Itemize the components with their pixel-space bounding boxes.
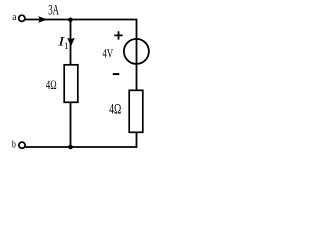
wire left branch upper (top junction to resistor) <box>70 20 72 66</box>
junction bottom node <box>68 145 73 150</box>
svg-text:4V: 4V <box>103 46 114 61</box>
svg-text:4Ω: 4Ω <box>109 102 121 118</box>
wire bottom (b to bottom-right corner) <box>26 146 138 148</box>
svg-text:1: 1 <box>64 41 69 51</box>
polarity plus mark <box>114 31 122 39</box>
node a terminal circle <box>19 15 25 21</box>
current arrow I1 on left branch <box>67 38 75 47</box>
wire right branch upper (corner through source to resistor) <box>136 19 138 91</box>
resistor 4ohm left branch <box>64 65 78 103</box>
node b terminal circle <box>19 142 25 148</box>
svg-text:a: a <box>12 11 16 23</box>
wire right branch lower (resistor to bottom wire) <box>136 132 138 148</box>
current arrow 3A on top wire <box>38 16 47 23</box>
wire top (a to top-right corner) <box>25 19 136 21</box>
svg-text:4Ω: 4Ω <box>46 78 57 92</box>
voltage source 4V circle <box>124 39 149 64</box>
svg-text:b: b <box>12 138 16 150</box>
svg-text:3A: 3A <box>48 3 59 19</box>
wire left branch lower (resistor to bottom junction) <box>70 102 72 147</box>
junction top node <box>68 18 73 23</box>
resistor 4ohm right branch <box>129 90 143 132</box>
polarity minus mark <box>113 73 120 75</box>
